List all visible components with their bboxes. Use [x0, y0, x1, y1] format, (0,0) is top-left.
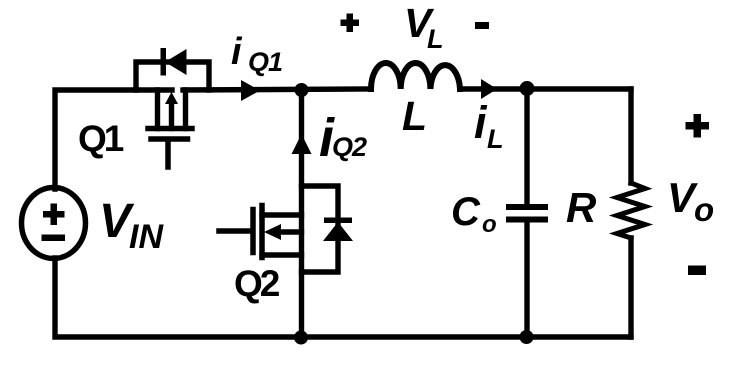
svg-text:o: o: [482, 211, 497, 238]
svg-text:i: i: [231, 31, 243, 73]
diode D1 triangle: [165, 49, 187, 75]
transistor Q2 top stub: [262, 212, 302, 217]
polarity plus of VO: [686, 114, 710, 138]
svg-text:R: R: [566, 184, 597, 231]
source V1 circle: [22, 188, 86, 259]
svg-text:Q1: Q1: [248, 47, 282, 77]
svg-text:L: L: [487, 124, 504, 154]
capacitor Co bottom lead: [524, 222, 529, 337]
transistor Q1 gate lead: [165, 141, 171, 167]
svg-text:L: L: [427, 24, 444, 54]
current arrow iL: [481, 79, 497, 99]
svg-text:C: C: [451, 190, 481, 234]
resistor R bottom lead: [628, 238, 633, 337]
transistor Q2 body arrow shaft: [277, 229, 302, 234]
wire: Q2 switch leg from switch node to ground: [299, 90, 304, 337]
source V1 plus sign: [43, 204, 65, 226]
transistor Q1 gate bar: [151, 136, 188, 142]
transistor Q2 bottom stub: [262, 252, 302, 257]
wire: inductor output segment: [460, 86, 631, 91]
diode D2 loop beside Q2: [302, 186, 339, 272]
transistor Q1 body arrow head: [165, 92, 178, 104]
svg-text:IN: IN: [129, 218, 164, 256]
current arrow iQ1: [241, 80, 260, 101]
node: output node dot: [520, 81, 535, 96]
resistor R zigzag: [617, 183, 645, 238]
diode D2 triangle: [323, 222, 353, 241]
wire: left rail bottom and ground rail: [55, 258, 631, 337]
wire: top rail from Q1 source to right corner into resistor: [183, 89, 371, 90]
transistor Q1 source stub: [183, 90, 188, 129]
transistor Q2 body arrow head: [264, 224, 281, 240]
node: switch node dot: [295, 83, 309, 97]
transistor Q1 body arrow shaft: [169, 100, 174, 129]
source V1 minus sign: [42, 235, 66, 242]
transistor Q1 channel bar: [148, 126, 192, 132]
polarity minus of VO: [688, 266, 706, 276]
resistor R top lead: [628, 89, 633, 183]
capacitor Co top plate: [509, 204, 545, 210]
svg-text:Q1: Q1: [78, 118, 124, 159]
transistor Q2 gate bar: [250, 210, 256, 253]
diode D2 cathode bar: [324, 218, 352, 224]
polarity minus of VL: [475, 22, 489, 29]
transistor Q2 channel bar: [259, 206, 265, 258]
diode D1 cathode bar: [161, 48, 167, 76]
capacitor Co top lead: [524, 89, 529, 203]
current arrow iQ2: [292, 134, 312, 154]
svg-text:Q2: Q2: [234, 263, 280, 304]
node: ground dot under Co: [520, 330, 534, 344]
svg-text:o: o: [694, 191, 714, 228]
polarity plus of VL: [341, 14, 360, 33]
node: ground dot under Q2: [294, 331, 308, 345]
transistor Q2 gate lead: [219, 228, 251, 234]
svg-text:L: L: [402, 93, 427, 139]
wire: left rail from source top up and right to Q1 drain: [55, 90, 172, 189]
transistor Q1 drain stub: [155, 90, 160, 129]
svg-text:Q2: Q2: [332, 132, 367, 162]
svg-text:i: i: [474, 97, 488, 148]
capacitor Co bottom plate: [509, 217, 545, 223]
inductor L winding: [371, 63, 460, 89]
diode D1 loop over Q1: [136, 62, 209, 90]
